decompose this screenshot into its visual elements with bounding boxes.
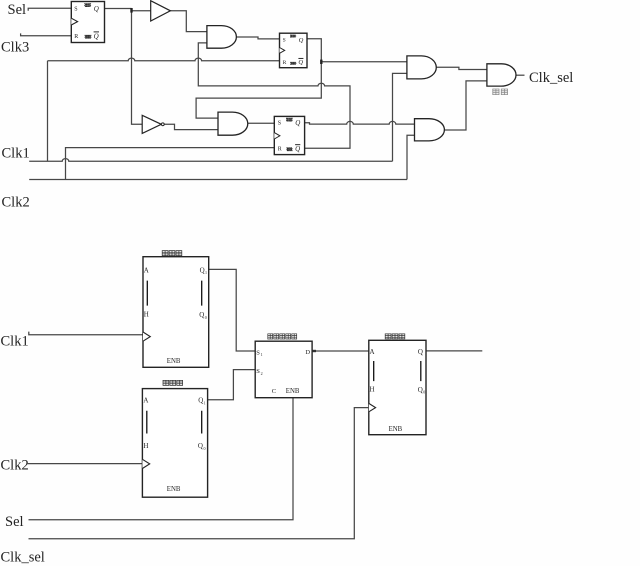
wire buffer U2 out to AND G1 top input <box>170 11 207 32</box>
svg-text:Q: Q <box>198 397 203 405</box>
junction mux D output <box>313 350 316 352</box>
flip-flop U1 (Sel/Clk3 SR latch) <box>71 2 104 43</box>
svg-text:Clk2: Clk2 <box>2 195 30 211</box>
register REG1 (top) <box>143 257 209 368</box>
wire Clk2 riser to U5.R <box>66 148 275 180</box>
wire U5.Q to AND G4 top input with hops <box>305 121 415 124</box>
label (Chinese) multiplexer title <box>268 334 297 339</box>
wire Clk1 riser to R rail <box>47 61 49 162</box>
flip-flop U5 <box>274 116 304 154</box>
wire Clk1 rail to U4.R with hops <box>48 58 280 61</box>
AND gate G1 <box>207 26 237 49</box>
svg-text:Clk_sel: Clk_sel <box>1 550 45 566</box>
svg-text:C: C <box>272 388 276 395</box>
wire Clk_sel to register REG3 clock <box>29 408 369 539</box>
svg-text:ENB: ENB <box>167 486 181 493</box>
svg-text:ENB: ENB <box>167 358 181 365</box>
wire Clk1 to register REG1 clock <box>29 332 143 335</box>
svg-text:Clk_sel: Clk_sel <box>529 70 573 86</box>
wire OR gate output to Clk_sel <box>516 74 525 76</box>
OR gate G5 (labeled huo-men) <box>487 64 516 86</box>
svg-text:R: R <box>278 147 282 153</box>
svg-text:Q: Q <box>200 266 205 274</box>
svg-text:Sel: Sel <box>5 514 24 530</box>
wire REG3.Q out <box>426 350 482 352</box>
svg-text:Q: Q <box>418 386 423 394</box>
junction U4.Q branch <box>320 60 322 64</box>
wire Clk2 to register REG2 clock <box>26 463 142 465</box>
label (Chinese) register title for register REG3 (right) <box>385 334 405 339</box>
wire G1 out to U4.S <box>236 37 279 39</box>
wire inverter U3 out to AND G2 lower input <box>164 124 218 129</box>
AND gate G2 <box>218 112 248 135</box>
junction node A <box>130 8 132 13</box>
svg-text:D: D <box>305 349 310 356</box>
svg-text:Q: Q <box>199 311 204 319</box>
wire U5.Qbar feedback to AND G1 lower input <box>198 43 350 148</box>
wire Sel to U1.S <box>28 8 71 11</box>
svg-text:R: R <box>283 60 287 66</box>
wire Clk3 to U1.R <box>21 33 72 35</box>
svg-text:S: S <box>74 6 77 12</box>
svg-text:1: 1 <box>204 400 206 405</box>
label "or gate" (Chinese) under G5 <box>493 89 508 95</box>
svg-text:ENB: ENB <box>286 388 300 395</box>
label (Chinese) register title for register REG1 (top) <box>162 251 182 256</box>
svg-text:Q: Q <box>418 348 423 356</box>
buffer U2 <box>151 1 171 21</box>
svg-text:A: A <box>144 266 149 274</box>
svg-text:Q: Q <box>94 33 99 41</box>
svg-text:H: H <box>143 442 148 450</box>
svg-text:S: S <box>283 37 286 43</box>
svg-text:S: S <box>278 121 281 127</box>
wire REG1.Q to mux S1 <box>209 269 256 351</box>
svg-text:Clk1: Clk1 <box>2 146 30 162</box>
register REG3 (right) <box>369 340 426 434</box>
svg-text:Clk1: Clk1 <box>1 334 29 350</box>
svg-text:Q: Q <box>295 145 300 153</box>
wire G4 out to OR gate lower input <box>444 81 487 130</box>
svg-text:0: 0 <box>205 315 207 320</box>
svg-text:ENB: ENB <box>389 426 403 433</box>
multiplexer MUX1 <box>255 341 312 398</box>
svg-text:Clk2: Clk2 <box>1 458 29 474</box>
svg-text:R: R <box>74 34 78 40</box>
wire U4.Q branch to AND G3 top input <box>321 61 407 63</box>
AND gate G3 <box>407 56 436 79</box>
wire Clk2 riser to AND G4 lower input <box>407 135 415 179</box>
wire G2 out to U5.S <box>248 122 274 124</box>
wire REG2.Q to mux S2 <box>208 370 256 400</box>
AND gate G4 <box>415 119 445 141</box>
svg-text:Q: Q <box>94 5 99 13</box>
svg-text:Q: Q <box>299 37 304 44</box>
wire U1.Q to buffer, node A jog <box>105 9 151 11</box>
svg-text:1: 1 <box>261 352 263 357</box>
svg-text:A: A <box>143 397 148 405</box>
svg-text:A: A <box>370 348 375 356</box>
register REG2 (bottom) <box>142 389 207 498</box>
wire G3 out to OR gate top input <box>436 67 487 69</box>
wire Clk1 riser to AND G3 lower input <box>393 73 407 161</box>
wire mux D to REG3.A <box>312 350 369 352</box>
svg-text:2: 2 <box>261 371 263 376</box>
svg-text:Clk3: Clk3 <box>1 40 29 56</box>
svg-text:Q: Q <box>295 119 300 127</box>
svg-text:Sel: Sel <box>8 2 27 18</box>
svg-text:S: S <box>256 350 260 357</box>
svg-text:H: H <box>144 311 149 319</box>
wire Clk1 horizontal with hop over Clk2 riser <box>29 159 392 162</box>
svg-text:Q: Q <box>298 59 303 66</box>
svg-text:S: S <box>256 368 260 375</box>
svg-text:0: 0 <box>423 390 425 395</box>
wire U4.Q down-left to AND G2 top input <box>196 39 321 118</box>
inverter U3 <box>142 115 161 133</box>
svg-text:H: H <box>370 386 375 394</box>
svg-text:Q: Q <box>198 442 203 450</box>
wire Clk2 horizontal <box>29 179 407 181</box>
label (Chinese) register title for register REG2 (bottom) <box>163 380 183 385</box>
svg-text:0: 0 <box>204 446 206 451</box>
svg-text:1: 1 <box>205 270 207 275</box>
wire Sel to mux enable <box>29 398 294 520</box>
wire node A down to inverter U3 input <box>132 9 143 125</box>
flip-flop U4 <box>280 33 308 67</box>
